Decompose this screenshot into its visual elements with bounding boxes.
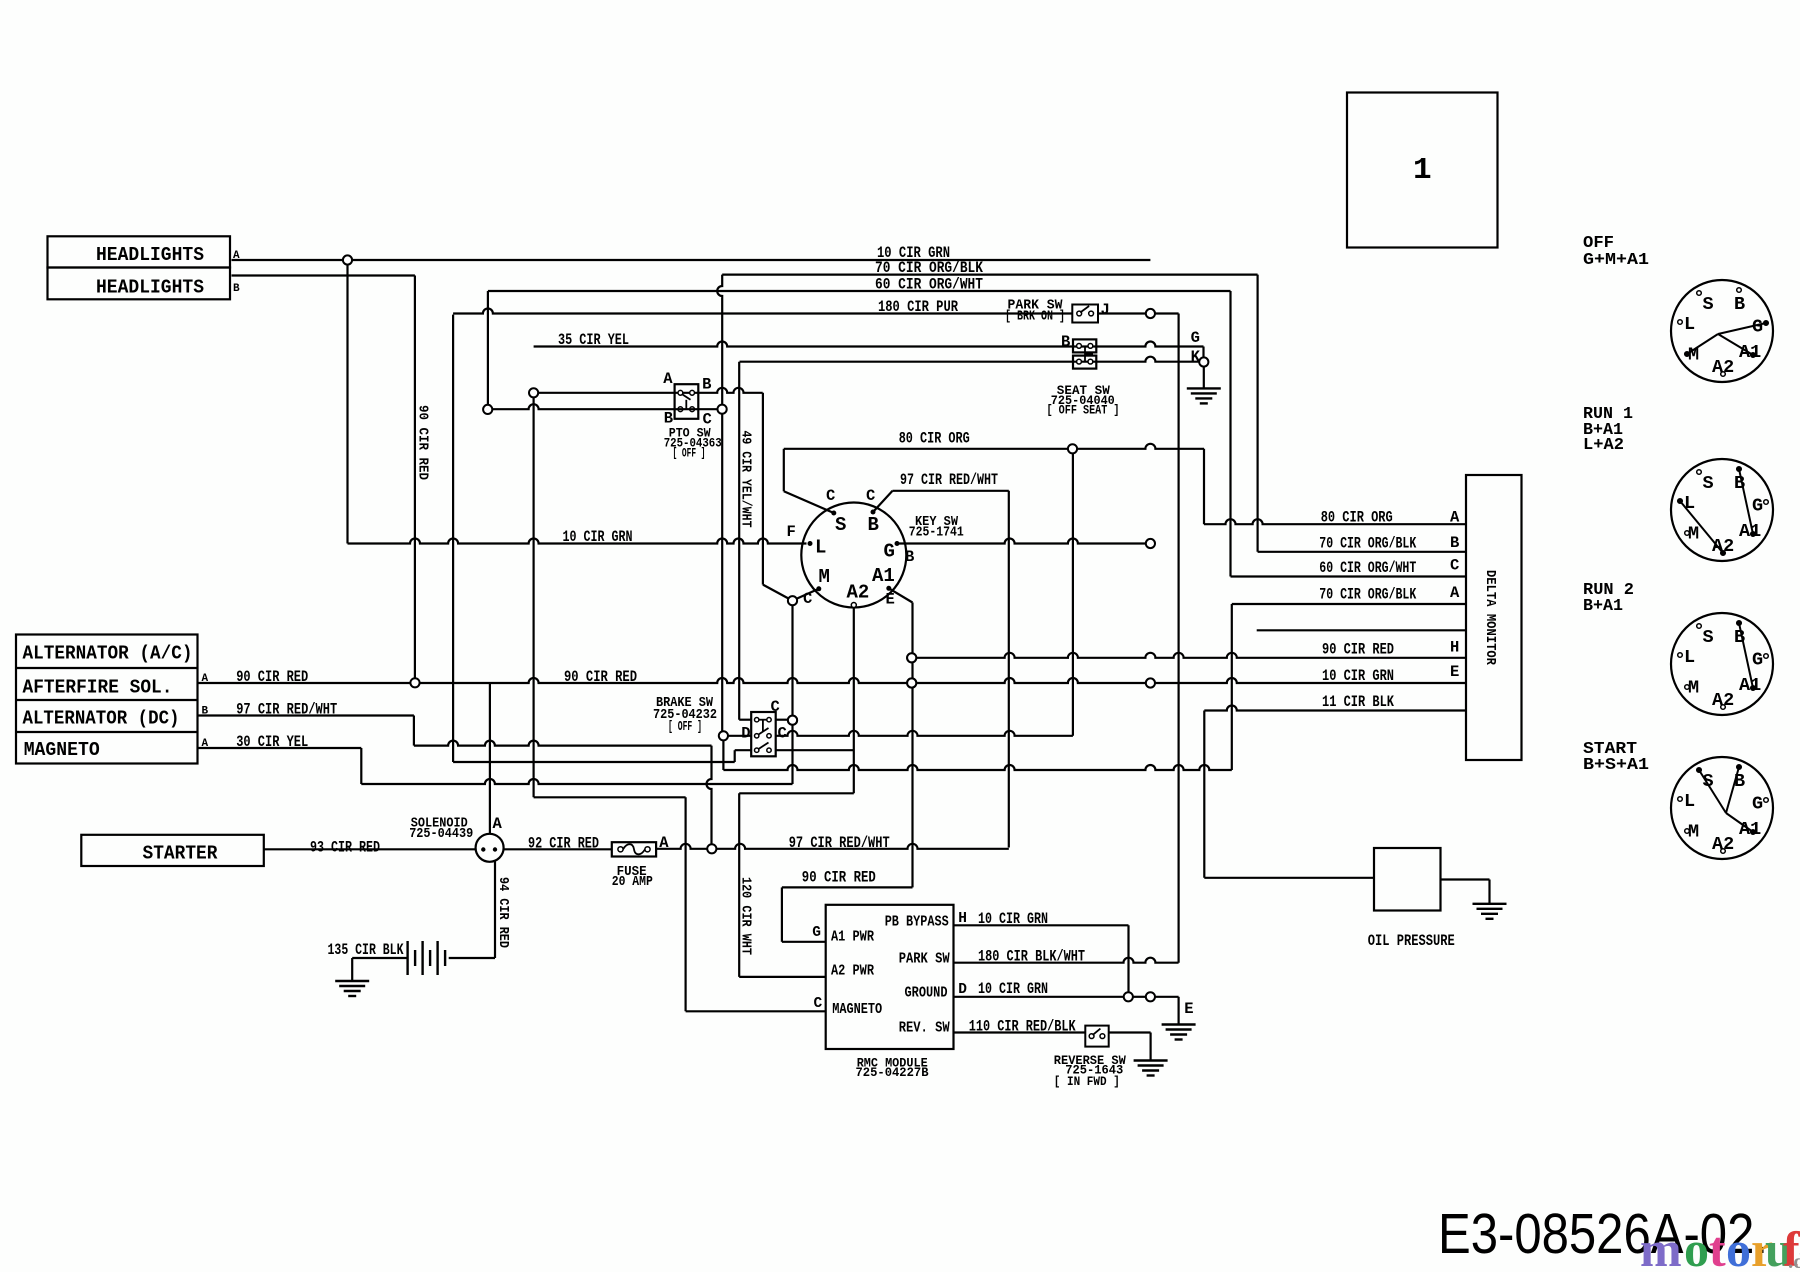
svg-text:93 CIR RED: 93 CIR RED — [310, 839, 380, 857]
svg-text:[ OFF ]: [ OFF ] — [673, 446, 706, 461]
svg-text:70 CIR ORG/BLK: 70 CIR ORG/BLK — [1319, 534, 1417, 552]
svg-text:REV. SW: REV. SW — [899, 1021, 950, 1037]
svg-text:AFTERFIRE SOL.: AFTERFIRE SOL. — [23, 676, 173, 698]
svg-text:60 CIR ORG/WHT: 60 CIR ORG/WHT — [1319, 559, 1416, 577]
svg-text:S: S — [1703, 473, 1714, 494]
svg-text:S: S — [1703, 627, 1714, 648]
svg-text:A2: A2 — [1712, 357, 1734, 378]
svg-text:S: S — [835, 514, 846, 536]
svg-text:B: B — [1450, 534, 1459, 552]
svg-text:49 CIR YEL/WHT: 49 CIR YEL/WHT — [738, 431, 754, 528]
svg-text:B: B — [905, 548, 914, 566]
svg-text:o: o — [1726, 1221, 1751, 1272]
svg-text:35 CIR YEL: 35 CIR YEL — [558, 331, 629, 349]
svg-text:A: A — [1450, 509, 1460, 527]
svg-text:60 CIR ORG/WHT: 60 CIR ORG/WHT — [875, 276, 983, 294]
svg-text:90 CIR RED: 90 CIR RED — [1322, 641, 1394, 659]
svg-text:70 CIR ORG/BLK: 70 CIR ORG/BLK — [875, 259, 984, 277]
svg-text:M: M — [819, 566, 830, 588]
svg-text:HEADLIGHTS: HEADLIGHTS — [96, 244, 204, 266]
svg-text:A2: A2 — [1712, 834, 1734, 855]
svg-text:C: C — [866, 487, 875, 505]
svg-text:70 CIR ORG/BLK: 70 CIR ORG/BLK — [1319, 585, 1417, 603]
svg-text:PARK SW: PARK SW — [899, 952, 950, 968]
svg-text:C: C — [1450, 557, 1459, 575]
svg-text:10 CIR GRN: 10 CIR GRN — [978, 910, 1048, 928]
svg-text:M: M — [1688, 822, 1699, 843]
svg-text:20 AMP: 20 AMP — [612, 875, 653, 890]
svg-text:E: E — [886, 591, 895, 609]
svg-text:11 CIR BLK: 11 CIR BLK — [1322, 693, 1395, 711]
svg-text:G: G — [812, 925, 821, 941]
svg-text:A: A — [1450, 584, 1460, 602]
svg-text:725-04439: 725-04439 — [409, 827, 473, 842]
svg-text:C: C — [778, 725, 787, 743]
svg-text:ALTERNATOR (A/C): ALTERNATOR (A/C) — [23, 643, 193, 665]
svg-text:E: E — [1184, 1000, 1193, 1018]
svg-text:10 CIR GRN: 10 CIR GRN — [978, 980, 1048, 998]
svg-text:B: B — [702, 375, 711, 393]
svg-text:HEADLIGHTS: HEADLIGHTS — [96, 276, 204, 298]
svg-text:B: B — [1061, 333, 1070, 351]
svg-text:L: L — [1684, 647, 1695, 668]
svg-text:m: m — [1640, 1221, 1682, 1272]
svg-text:STARTER: STARTER — [143, 843, 219, 865]
svg-text:97 CIR RED/WHT: 97 CIR RED/WHT — [236, 701, 337, 719]
svg-text:[ OFF ]: [ OFF ] — [668, 720, 702, 735]
svg-text:90 CIR RED: 90 CIR RED — [802, 869, 876, 887]
svg-text:.de: .de — [1788, 1249, 1800, 1272]
svg-text:DELTA MONITOR: DELTA MONITOR — [1482, 570, 1497, 666]
svg-text:C: C — [771, 698, 780, 716]
svg-text:OIL PRESSURE: OIL PRESSURE — [1368, 932, 1455, 950]
svg-text:30 CIR YEL: 30 CIR YEL — [236, 733, 308, 751]
svg-text:A2: A2 — [847, 582, 870, 604]
svg-text:G: G — [1752, 317, 1763, 338]
svg-text:M: M — [1688, 678, 1699, 699]
svg-text:t: t — [1709, 1221, 1726, 1272]
svg-text:10 CIR GRN: 10 CIR GRN — [1322, 667, 1394, 685]
svg-text:180 CIR BLK/WHT: 180 CIR BLK/WHT — [978, 947, 1085, 965]
svg-text:[ IN FWD ]: [ IN FWD ] — [1054, 1075, 1120, 1089]
svg-text:G: G — [1191, 329, 1200, 347]
svg-text:A: A — [663, 370, 673, 388]
svg-text:A2: A2 — [1712, 690, 1734, 711]
svg-text:B: B — [1734, 294, 1745, 315]
svg-text:B: B — [233, 283, 240, 295]
svg-text:C: C — [826, 487, 835, 505]
svg-text:A1 PWR: A1 PWR — [831, 930, 874, 946]
svg-text:o: o — [1684, 1221, 1709, 1272]
svg-text:PB BYPASS: PB BYPASS — [885, 914, 949, 930]
svg-text:80 CIR ORG: 80 CIR ORG — [1321, 508, 1393, 526]
svg-text:G: G — [884, 541, 895, 563]
svg-text:A: A — [493, 815, 503, 833]
svg-text:A: A — [659, 834, 669, 852]
svg-text:H: H — [1450, 639, 1459, 657]
svg-text:180 CIR PUR: 180 CIR PUR — [878, 298, 959, 316]
svg-text:J: J — [1101, 301, 1110, 319]
svg-text:MAGNETO: MAGNETO — [24, 739, 100, 761]
svg-text:G: G — [1752, 794, 1763, 815]
svg-text:94 CIR RED: 94 CIR RED — [495, 877, 511, 948]
svg-text:1: 1 — [1413, 153, 1432, 188]
svg-text:L: L — [1684, 314, 1695, 335]
svg-text:92 CIR RED: 92 CIR RED — [528, 835, 599, 853]
svg-text:D: D — [741, 725, 750, 743]
svg-text:L: L — [815, 537, 826, 559]
svg-text:135 CIR BLK: 135 CIR BLK — [328, 941, 405, 959]
svg-text:120 CIR WHT: 120 CIR WHT — [737, 877, 753, 955]
svg-text:B+S+A1: B+S+A1 — [1583, 755, 1649, 774]
svg-text:G: G — [1752, 496, 1763, 517]
svg-text:80 CIR ORG: 80 CIR ORG — [899, 430, 970, 448]
svg-text:C: C — [814, 996, 823, 1012]
svg-text:G+M+A1: G+M+A1 — [1583, 250, 1649, 269]
svg-text:GROUND: GROUND — [905, 986, 948, 1002]
svg-text:B+A1: B+A1 — [1583, 596, 1623, 615]
svg-text:M: M — [1688, 524, 1699, 545]
svg-text:90 CIR RED: 90 CIR RED — [564, 668, 637, 686]
svg-text:10 CIR GRN: 10 CIR GRN — [563, 528, 633, 546]
svg-text:[ OFF SEAT ]: [ OFF SEAT ] — [1047, 404, 1120, 418]
svg-text:F: F — [787, 523, 796, 541]
svg-text:L: L — [1684, 791, 1695, 812]
svg-text:D: D — [958, 982, 967, 998]
svg-text:ALTERNATOR (DC): ALTERNATOR (DC) — [23, 708, 180, 730]
svg-text:E: E — [1450, 663, 1459, 681]
svg-text:97 CIR RED/WHT: 97 CIR RED/WHT — [789, 834, 890, 852]
svg-text:90 CIR RED: 90 CIR RED — [415, 405, 431, 480]
svg-text:L: L — [1684, 493, 1695, 514]
svg-text:97 CIR RED/WHT: 97 CIR RED/WHT — [900, 471, 998, 489]
svg-text:MAGNETO: MAGNETO — [832, 1002, 882, 1018]
svg-text:S: S — [1703, 294, 1714, 315]
svg-text:725-04227B: 725-04227B — [856, 1066, 929, 1080]
svg-text:L+A2: L+A2 — [1583, 435, 1624, 454]
svg-text:A2 PWR: A2 PWR — [831, 963, 874, 979]
svg-text:[ BRK ON ]: [ BRK ON ] — [1005, 310, 1065, 325]
svg-text:G: G — [1752, 650, 1763, 671]
svg-text:K: K — [1191, 348, 1201, 366]
svg-text:B: B — [868, 514, 879, 536]
svg-text:725-1741: 725-1741 — [909, 526, 964, 541]
svg-text:A1: A1 — [872, 565, 895, 587]
